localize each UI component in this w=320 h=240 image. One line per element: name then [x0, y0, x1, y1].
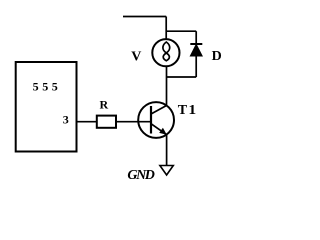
- lamp V: [152, 39, 179, 66]
- svg-text:1: 1: [188, 103, 196, 118]
- resistor R: [97, 116, 116, 128]
- wire: diode branch top vertical: [195, 31, 197, 44]
- wire: diode branch bottom vertical: [195, 56, 197, 77]
- wire: diode branch bottom horizontal: [167, 76, 197, 78]
- wire: pin 3 to resistor: [77, 121, 97, 123]
- wire: emitter to ground: [166, 135, 168, 166]
- svg-text:3: 3: [63, 113, 69, 127]
- diode D triangle: [191, 45, 203, 56]
- svg-text:555: 555: [33, 79, 62, 93]
- svg-text:T: T: [178, 103, 188, 118]
- svg-text:V: V: [131, 50, 141, 65]
- svg-text:GND: GND: [127, 168, 154, 183]
- ground: [160, 166, 173, 176]
- wire: resistor to transistor base: [116, 121, 151, 123]
- svg-text:R: R: [100, 98, 109, 112]
- 555 timer U1: [16, 62, 77, 152]
- transistor T1: [138, 102, 174, 138]
- node: lamp/diode top junction: [166, 30, 196, 32]
- wire: lamp bottom to transistor collector: [166, 66, 168, 105]
- wire: rail down to lamp top node: [165, 17, 167, 39]
- diode D cathode bar: [190, 43, 202, 45]
- svg-text:D: D: [212, 49, 222, 64]
- wire: top supply rail: [123, 16, 166, 18]
